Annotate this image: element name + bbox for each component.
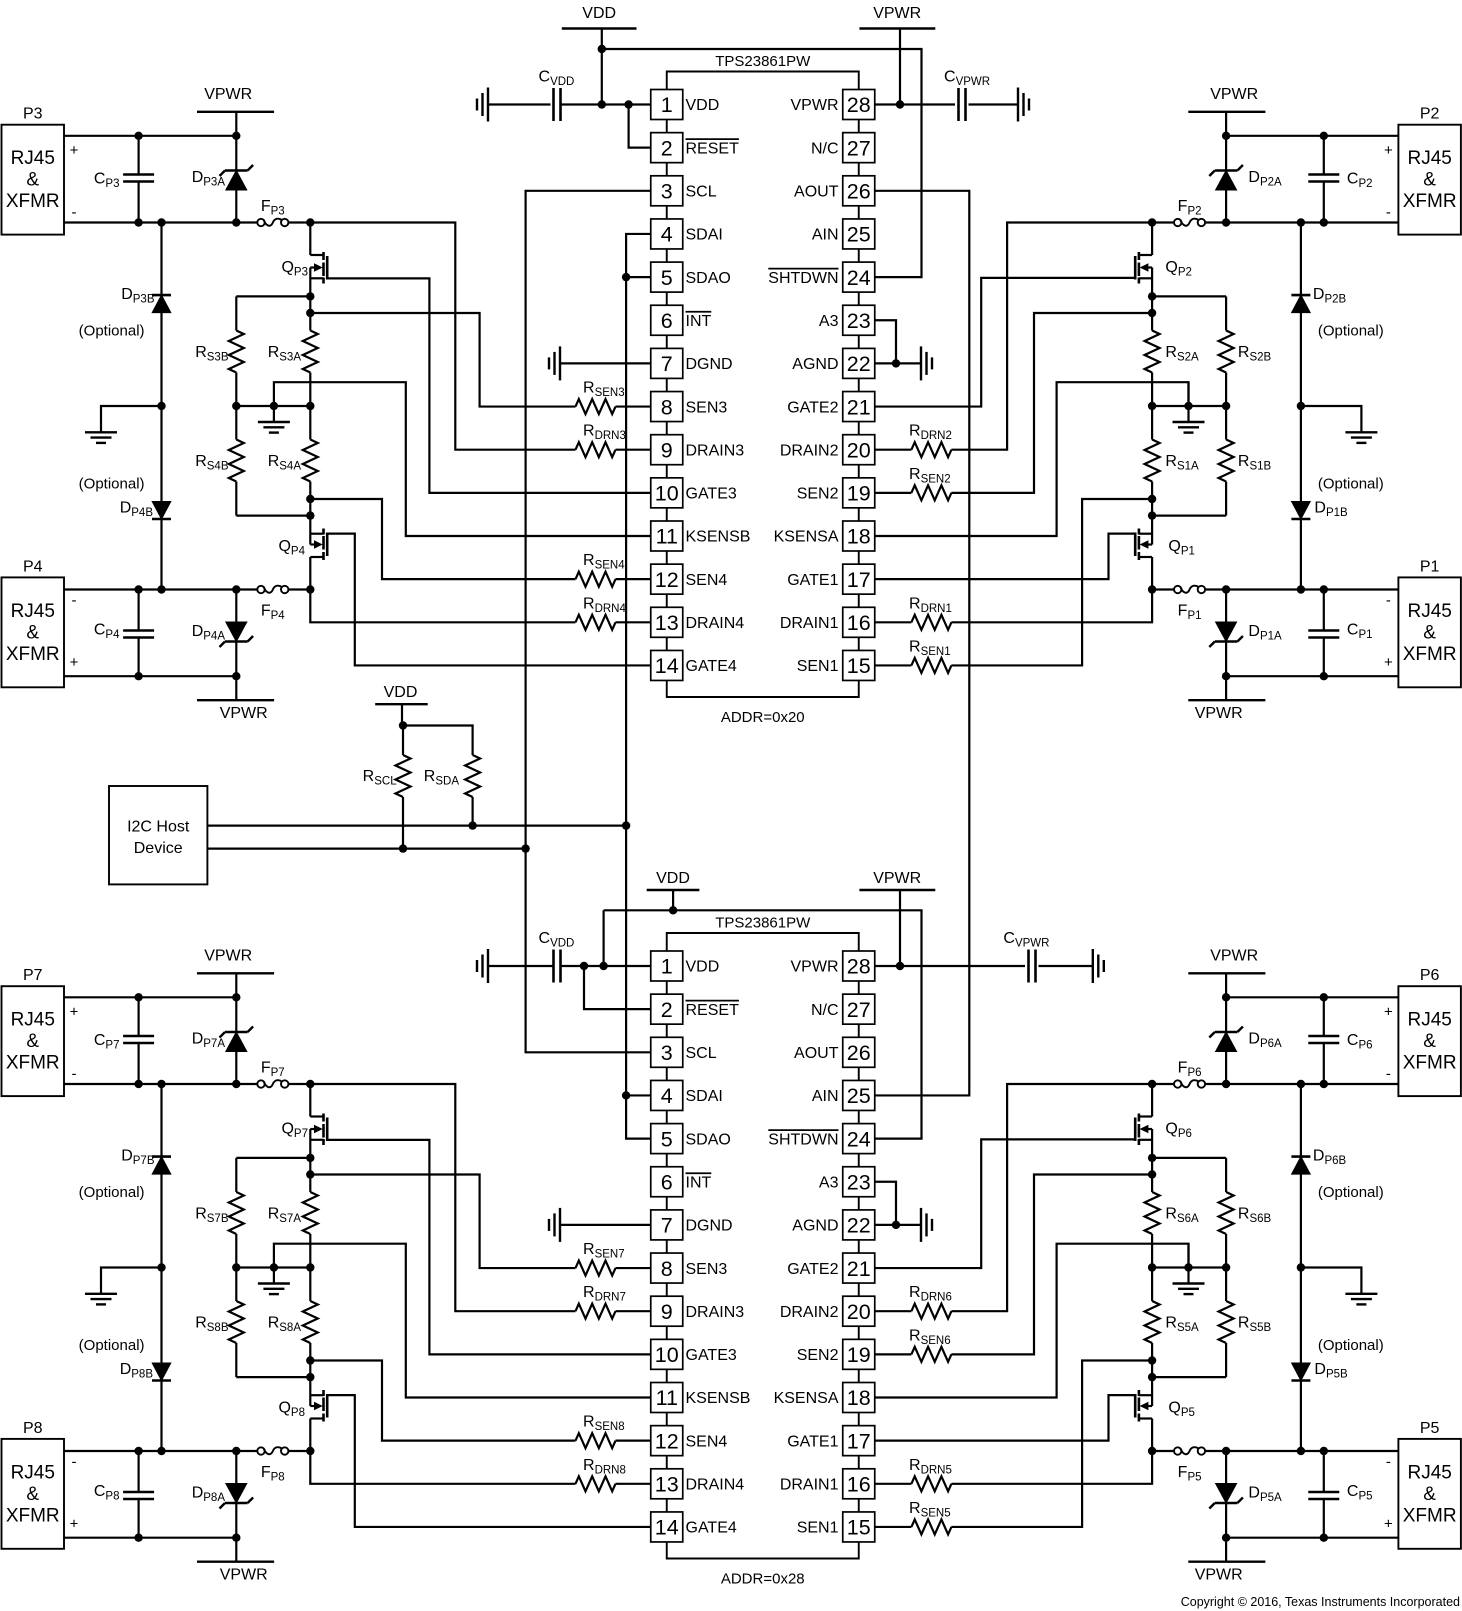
pin 9 box (DRAIN3) U1	[651, 435, 683, 465]
wire source to RS5B	[1152, 1376, 1226, 1378]
wire source to RS1B	[1152, 514, 1226, 516]
port P2 RJ45 & XFMR box	[1398, 125, 1461, 235]
svg-text:&: &	[1423, 1484, 1436, 1505]
wire DRAIN4 net	[310, 590, 575, 623]
pin 10 box (GATE3) U1	[651, 478, 683, 508]
svg-text:DRAIN2: DRAIN2	[780, 1304, 839, 1321]
diode DP8B (optional)	[152, 1363, 171, 1381]
wire QP3 drain	[309, 223, 311, 256]
pin 12 box (SEN4) U2	[651, 1426, 683, 1456]
svg-text:25: 25	[847, 223, 871, 247]
ground at DGND (top IC)	[549, 346, 560, 380]
svg-text:16: 16	[847, 1473, 871, 1497]
pin 22 box (AGND) U1	[843, 348, 875, 378]
MOSFET QP2	[1135, 252, 1152, 284]
svg-text:21: 21	[847, 395, 871, 419]
resistor RSEN1	[875, 1519, 952, 1534]
capacitor CP4	[123, 631, 154, 638]
wire VDD to SHTDWN	[598, 45, 922, 277]
wire source to RS7B	[236, 1157, 310, 1159]
svg-text:9: 9	[661, 438, 673, 462]
pin 17 box (GATE1) U1	[843, 564, 875, 594]
fuse FP2 symbol	[1174, 219, 1205, 227]
resistor RS5B	[1219, 1268, 1234, 1344]
wire D chain to ground (L side)	[101, 1268, 162, 1294]
resistor RSEN3	[576, 399, 651, 414]
svg-text:+: +	[70, 142, 79, 159]
wire P4 fuse to switch node	[289, 585, 314, 593]
svg-text:(Optional): (Optional)	[1318, 476, 1384, 493]
svg-text:RJ45: RJ45	[11, 1462, 55, 1483]
svg-text:AOUT: AOUT	[794, 184, 839, 201]
wire DRAIN2 net	[951, 1084, 1152, 1311]
svg-text:N/C: N/C	[811, 1002, 839, 1019]
svg-text:12: 12	[655, 568, 679, 592]
wire source to RS2B	[1152, 295, 1226, 297]
wire P7 upper rail	[64, 993, 241, 1001]
pin 13 box (DRAIN4) U2	[651, 1469, 683, 1499]
svg-text:23: 23	[847, 1170, 871, 1194]
svg-text:20: 20	[847, 1300, 871, 1324]
svg-text:VDD: VDD	[384, 684, 418, 701]
svg-text:22: 22	[847, 1214, 871, 1238]
capacitor CP3	[123, 175, 154, 182]
wire RS2B top lead	[1225, 296, 1227, 330]
svg-text:28: 28	[847, 955, 871, 979]
wire P6 fuse rail (RJ45 side)	[1206, 1080, 1399, 1088]
pin 10 box (GATE3) U2	[651, 1339, 683, 1369]
wire DRAIN1 net	[951, 590, 1152, 623]
svg-text:KSENSB: KSENSB	[686, 529, 751, 546]
svg-text:XFMR: XFMR	[6, 1053, 60, 1074]
svg-text:VPWR: VPWR	[220, 1567, 268, 1584]
capacitor CVPWR (bottom IC)	[1029, 950, 1036, 983]
wire CVDD to pin1 (bottom IC)	[488, 965, 554, 967]
svg-text:&: &	[1423, 622, 1436, 643]
ground at sense divider (L side)	[258, 406, 290, 433]
svg-text:8: 8	[661, 1257, 673, 1281]
pin 18 box (KSENSA) U2	[843, 1383, 875, 1413]
svg-text:VPWR: VPWR	[1210, 86, 1258, 103]
svg-text:RJ45: RJ45	[1407, 601, 1451, 622]
wire P5 outer rail	[1222, 1534, 1399, 1542]
svg-text:VPWR: VPWR	[791, 97, 839, 114]
svg-text:13: 13	[655, 611, 679, 635]
wire source to RS3B	[236, 295, 310, 297]
wire RS7B top lead	[235, 1158, 237, 1192]
wire QP8 drain	[309, 1419, 311, 1452]
pin 21 box (GATE2) U1	[843, 392, 875, 422]
svg-text:15: 15	[847, 1516, 871, 1540]
pin 6 box (INT) U1	[651, 305, 683, 335]
svg-text:KSENSB: KSENSB	[686, 1390, 751, 1407]
ground at sense divider (R side)	[1173, 406, 1205, 433]
svg-text:28: 28	[847, 93, 871, 117]
wire CP7 leads	[138, 997, 140, 1036]
svg-text:XFMR: XFMR	[6, 191, 60, 212]
VPWR rail symbol at P2	[1188, 86, 1265, 136]
svg-text:VPWR: VPWR	[204, 86, 252, 103]
pin 16 box (DRAIN1) U2	[843, 1469, 875, 1499]
pin 18 box (KSENSA) U1	[843, 521, 875, 551]
svg-text:20: 20	[847, 438, 871, 462]
wire RS6B top lead	[1225, 1158, 1227, 1192]
IC U2 TPS23861PW outline	[667, 933, 859, 1559]
resistor RDRN3	[576, 1304, 651, 1319]
resistor RSEN4	[576, 1433, 651, 1448]
wire GATE3 net	[327, 1140, 650, 1354]
wire SDAI bottom pin4 stub	[626, 1094, 650, 1096]
svg-text:-: -	[72, 1066, 77, 1083]
fuse FP5 symbol	[1174, 1447, 1205, 1455]
svg-text:VDD: VDD	[582, 5, 616, 22]
wire DRAIN1 net	[951, 1451, 1152, 1484]
svg-text:SEN2: SEN2	[797, 1347, 839, 1364]
wire P1 fuse rail (RJ45 side)	[1206, 585, 1399, 593]
svg-text:9: 9	[661, 1300, 673, 1324]
wire DP4A leads	[235, 642, 237, 677]
resistor RSEN2	[875, 485, 952, 500]
svg-text:+: +	[1384, 1004, 1393, 1021]
svg-text:6: 6	[661, 1170, 673, 1194]
wire VPWR pin28 node (bottom IC)	[875, 962, 1025, 970]
wire P8 upper rail	[64, 1534, 241, 1542]
wire D chain vertical (L side)	[157, 223, 165, 590]
svg-text:P7: P7	[23, 967, 43, 984]
wire SEN4 net	[310, 499, 575, 579]
svg-text:GATE4: GATE4	[686, 658, 737, 675]
wire D chain vertical (R side)	[1297, 223, 1305, 590]
svg-text:P4: P4	[23, 558, 43, 575]
TVS diode DP3A (zener)	[220, 165, 254, 190]
svg-text:27: 27	[847, 136, 871, 160]
svg-text:19: 19	[847, 1343, 871, 1367]
svg-text:22: 22	[847, 352, 871, 376]
capacitor CP2	[1308, 175, 1339, 182]
svg-text:ADDR=0x28: ADDR=0x28	[721, 1571, 805, 1588]
svg-text:Device: Device	[134, 840, 183, 857]
ground at AGND (bottom IC)	[921, 1208, 932, 1242]
svg-text:(Optional): (Optional)	[79, 323, 145, 340]
svg-text:4: 4	[661, 223, 673, 247]
pin 11 box (KSENSB) U2	[651, 1383, 683, 1413]
wire QP7 source node	[306, 1129, 314, 1192]
wire SDA net	[622, 234, 651, 830]
pin 17 box (GATE1) U2	[843, 1426, 875, 1456]
wire KSENSA net	[875, 382, 1189, 536]
svg-text:VPWR: VPWR	[791, 959, 839, 976]
capacitor CP7	[123, 1036, 154, 1043]
svg-text:12: 12	[655, 1429, 679, 1453]
resistor RDRN1	[875, 1476, 952, 1491]
svg-text:VDD: VDD	[686, 959, 720, 976]
wire AGND pin22 (bottom IC)	[875, 1221, 921, 1229]
svg-text:&: &	[26, 1484, 39, 1505]
wire GATE1 net	[875, 1395, 1135, 1441]
svg-text:(Optional): (Optional)	[79, 476, 145, 493]
svg-text:-: -	[72, 1454, 77, 1471]
svg-text:SHTDWN: SHTDWN	[768, 270, 838, 287]
fuse FP1 symbol	[1174, 586, 1205, 594]
wire pin1 node (bottom IC)	[561, 962, 651, 970]
svg-text:SCL: SCL	[686, 1045, 717, 1062]
wire P4 upper rail	[64, 672, 241, 680]
svg-text:2: 2	[661, 998, 673, 1022]
svg-text:SEN1: SEN1	[797, 658, 839, 675]
svg-text:P8: P8	[23, 1420, 43, 1437]
wire source to RS6B	[1152, 1157, 1226, 1159]
svg-text:SDAI: SDAI	[686, 227, 723, 244]
resistor RSEN3	[576, 1261, 651, 1276]
resistor RS4A	[303, 406, 318, 482]
svg-text:GATE1: GATE1	[787, 572, 838, 589]
resistor RS1A	[1145, 406, 1160, 482]
svg-text:SEN3: SEN3	[686, 1261, 728, 1278]
wire GATE2 net	[875, 1139, 1135, 1268]
diode DP1B (optional)	[1291, 502, 1310, 520]
svg-text:KSENSA: KSENSA	[774, 1390, 839, 1407]
VPWR rail symbol at P7	[197, 947, 274, 997]
svg-text:SEN4: SEN4	[686, 572, 728, 589]
wire DP3A leads	[235, 136, 237, 171]
svg-text:SCL: SCL	[686, 184, 717, 201]
MOSFET QP8	[310, 1390, 327, 1422]
wire D chain to ground (R side)	[1301, 406, 1362, 432]
VPWR rail symbol at P5	[1188, 1538, 1265, 1584]
svg-text:8: 8	[661, 395, 673, 419]
svg-text:+: +	[1384, 1516, 1393, 1533]
pin 26 box (AOUT) U2	[843, 1037, 875, 1067]
wire KSENSB net	[274, 382, 651, 536]
pin 5 box (SDAO) U1	[651, 262, 683, 292]
svg-text:&: &	[1423, 1031, 1436, 1052]
wire QP8 source node	[306, 1343, 314, 1406]
svg-text:VPWR: VPWR	[1195, 1567, 1243, 1584]
svg-text:AIN: AIN	[812, 1088, 839, 1105]
svg-text:P3: P3	[23, 106, 43, 123]
MOSFET QP5	[1135, 1390, 1152, 1422]
wire P7 fuse rail (RJ45 side)	[64, 1080, 257, 1088]
svg-text:3: 3	[661, 180, 673, 204]
pin 28 box (VPWR) U2	[843, 951, 875, 981]
svg-text:DRAIN3: DRAIN3	[686, 1304, 745, 1321]
svg-text:16: 16	[847, 611, 871, 635]
svg-text:+: +	[70, 1004, 79, 1021]
pin 15 box (SEN1) U2	[843, 1512, 875, 1542]
wire QP3 source node	[306, 268, 314, 331]
wire DP6A leads	[1225, 997, 1227, 1032]
wire KSENSA riser	[1187, 1244, 1189, 1268]
wire SEN2 net	[951, 1175, 1152, 1355]
svg-text:10: 10	[655, 1343, 679, 1367]
svg-text:P2: P2	[1420, 106, 1440, 123]
svg-text:I2C Host: I2C Host	[127, 819, 190, 836]
svg-text:(Optional): (Optional)	[79, 1184, 145, 1201]
VDD rail symbol (top IC)	[562, 5, 637, 105]
svg-text:RJ45: RJ45	[11, 1010, 55, 1031]
svg-text:RJ45: RJ45	[1407, 148, 1451, 169]
ground at CVDD (top IC)	[477, 88, 488, 122]
diode DP4B (optional)	[152, 502, 171, 520]
port P3 RJ45 & XFMR box	[2, 125, 65, 235]
ground at CVPWR (bottom IC)	[1093, 949, 1104, 983]
pin 27 box (N/C) U1	[843, 133, 875, 163]
wire P6 outer rail	[1222, 993, 1399, 1001]
svg-text:(Optional): (Optional)	[1318, 323, 1384, 340]
pin 27 box (N/C) U2	[843, 994, 875, 1024]
wire RS4B top lead	[235, 482, 237, 516]
pin 3 box (SCL) U1	[651, 176, 683, 206]
svg-text:DRAIN2: DRAIN2	[780, 442, 839, 459]
resistor RS2B	[1219, 331, 1234, 407]
VPWR rail symbol at P3	[197, 86, 274, 136]
svg-text:7: 7	[661, 1214, 673, 1238]
svg-text:DRAIN1: DRAIN1	[780, 1477, 839, 1494]
svg-text:ADDR=0x20: ADDR=0x20	[721, 709, 805, 726]
pin 2 box (RESET) U2	[651, 994, 683, 1024]
svg-text:+: +	[1384, 142, 1393, 159]
pin 7 box (DGND) U2	[651, 1210, 683, 1240]
wire GATE2 net	[875, 278, 1135, 407]
pin 23 box (A3) U1	[843, 305, 875, 335]
svg-text:3: 3	[661, 1041, 673, 1065]
diode DP7B (optional)	[152, 1157, 171, 1175]
resistor RS8B	[229, 1268, 244, 1344]
pin 14 box (GATE4) U2	[651, 1512, 683, 1542]
wire P6 fuse to switch node	[1148, 1080, 1174, 1088]
svg-text:AOUT: AOUT	[794, 1045, 839, 1062]
resistor RS7A	[303, 1192, 318, 1268]
wire RESET tie	[629, 105, 651, 148]
TVS diode DP7A (zener)	[220, 1027, 254, 1052]
svg-text:14: 14	[655, 1516, 679, 1540]
svg-text:&: &	[26, 622, 39, 643]
wire GATE4 net	[327, 1395, 650, 1527]
wire QP2 source node	[1148, 268, 1156, 331]
svg-text:&: &	[26, 170, 39, 191]
resistor RDRN4	[576, 1476, 651, 1491]
pin 19 box (SEN2) U1	[843, 478, 875, 508]
pin 25 box (AIN) U2	[843, 1080, 875, 1110]
wire QP7 drain	[309, 1084, 311, 1117]
resistor RSEN1	[875, 658, 952, 673]
capacitor CP8	[123, 1492, 154, 1499]
svg-text:A3: A3	[819, 1174, 839, 1191]
resistor RS2A	[1145, 331, 1160, 407]
TVS diode DP4A (zener)	[220, 622, 254, 647]
svg-text:17: 17	[847, 568, 871, 592]
pin 2 box (RESET) U1	[651, 133, 683, 163]
svg-text:26: 26	[847, 1041, 871, 1065]
svg-text:DRAIN4: DRAIN4	[686, 615, 745, 632]
wire P8 fuse rail (RJ45 side)	[64, 1447, 257, 1455]
port P1 RJ45 & XFMR box	[1398, 577, 1461, 687]
wire sense mid node row (L side)	[232, 1263, 314, 1271]
resistor RS6B	[1219, 1192, 1234, 1268]
capacitor CP6	[1308, 1036, 1339, 1043]
VPWR rail symbol (bottom IC)	[859, 870, 935, 966]
ground at sense divider (L side)	[258, 1268, 290, 1295]
fuse FP7 symbol	[257, 1080, 288, 1088]
svg-text:SEN4: SEN4	[686, 1433, 728, 1450]
wire DP7A leads	[235, 997, 237, 1032]
resistor RDRN2	[875, 1304, 952, 1319]
svg-text:(Optional): (Optional)	[1318, 1184, 1384, 1201]
svg-text:&: &	[1423, 170, 1436, 191]
wire SEN1 net	[951, 1361, 1152, 1527]
svg-text:RESET: RESET	[686, 1002, 740, 1019]
wire A3 tie (bottom IC)	[875, 1182, 896, 1225]
MOSFET QP3	[310, 252, 327, 284]
svg-text:7: 7	[661, 352, 673, 376]
wire SEN2 net	[951, 313, 1152, 493]
capacitor CP1	[1308, 631, 1339, 638]
capacitor CVPWR (top IC)	[959, 88, 966, 121]
svg-text:DGND: DGND	[686, 1218, 733, 1235]
resistor RSEN4	[576, 572, 651, 587]
svg-text:4: 4	[661, 1084, 673, 1108]
pin 8 box (SEN3) U1	[651, 392, 683, 422]
ground at D chain (R side)	[1345, 432, 1377, 443]
wire P3 fuse rail (RJ45 side)	[64, 218, 257, 226]
wire KSENSB net	[274, 1244, 651, 1398]
pin 13 box (DRAIN4) U1	[651, 607, 683, 637]
svg-text:VPWR: VPWR	[220, 705, 268, 722]
VDD rail symbol (I2C pullups)	[375, 684, 428, 726]
svg-text:-: -	[1386, 592, 1391, 609]
wire P5 fuse rail (RJ45 side)	[1206, 1447, 1399, 1455]
svg-text:Copyright © 2016, Texas Instru: Copyright © 2016, Texas Instruments Inco…	[1181, 1595, 1460, 1609]
port P6 RJ45 & XFMR box	[1398, 986, 1461, 1096]
svg-text:18: 18	[847, 1386, 871, 1410]
wire DRAIN3 net	[310, 223, 575, 450]
svg-text:XFMR: XFMR	[1403, 644, 1457, 665]
svg-text:RJ45: RJ45	[11, 148, 55, 169]
svg-text:P5: P5	[1420, 1420, 1440, 1437]
svg-text:SEN2: SEN2	[797, 486, 839, 503]
svg-text:5: 5	[661, 266, 673, 290]
wire A3 tie	[875, 320, 896, 363]
svg-text:25: 25	[847, 1084, 871, 1108]
wire P2 fuse rail (RJ45 side)	[1206, 218, 1399, 226]
port P7 RJ45 & XFMR box	[2, 986, 65, 1096]
svg-text:P6: P6	[1420, 967, 1440, 984]
svg-text:XFMR: XFMR	[6, 1505, 60, 1526]
port P4 RJ45 & XFMR box	[2, 577, 65, 687]
svg-text:XFMR: XFMR	[1403, 1053, 1457, 1074]
resistor RS6A	[1145, 1192, 1160, 1268]
ground at CVPWR (top IC)	[1018, 88, 1029, 122]
svg-text:(Optional): (Optional)	[1318, 1337, 1384, 1354]
pin 28 box (VPWR) U1	[843, 90, 875, 120]
svg-text:15: 15	[847, 654, 871, 678]
svg-text:GATE3: GATE3	[686, 1347, 737, 1364]
resistor RS3B	[229, 331, 244, 407]
diode DP6B (optional)	[1291, 1157, 1310, 1175]
fuse FP4 symbol	[257, 586, 288, 594]
svg-text:SHTDWN: SHTDWN	[768, 1131, 838, 1148]
resistor RS5A	[1145, 1268, 1160, 1344]
wire VDD node (bottom IC)	[604, 906, 922, 1139]
ground at CVDD (bottom IC)	[477, 949, 488, 983]
wire CP1 leads	[1323, 638, 1325, 677]
svg-text:(Optional): (Optional)	[79, 1337, 145, 1354]
svg-text:SEN1: SEN1	[797, 1520, 839, 1537]
svg-text:DRAIN3: DRAIN3	[686, 442, 745, 459]
wire SEN3 net	[310, 313, 575, 407]
wire QP5 drain	[1151, 1419, 1153, 1452]
pin 24 box (SHTDWN) U1	[843, 262, 875, 292]
